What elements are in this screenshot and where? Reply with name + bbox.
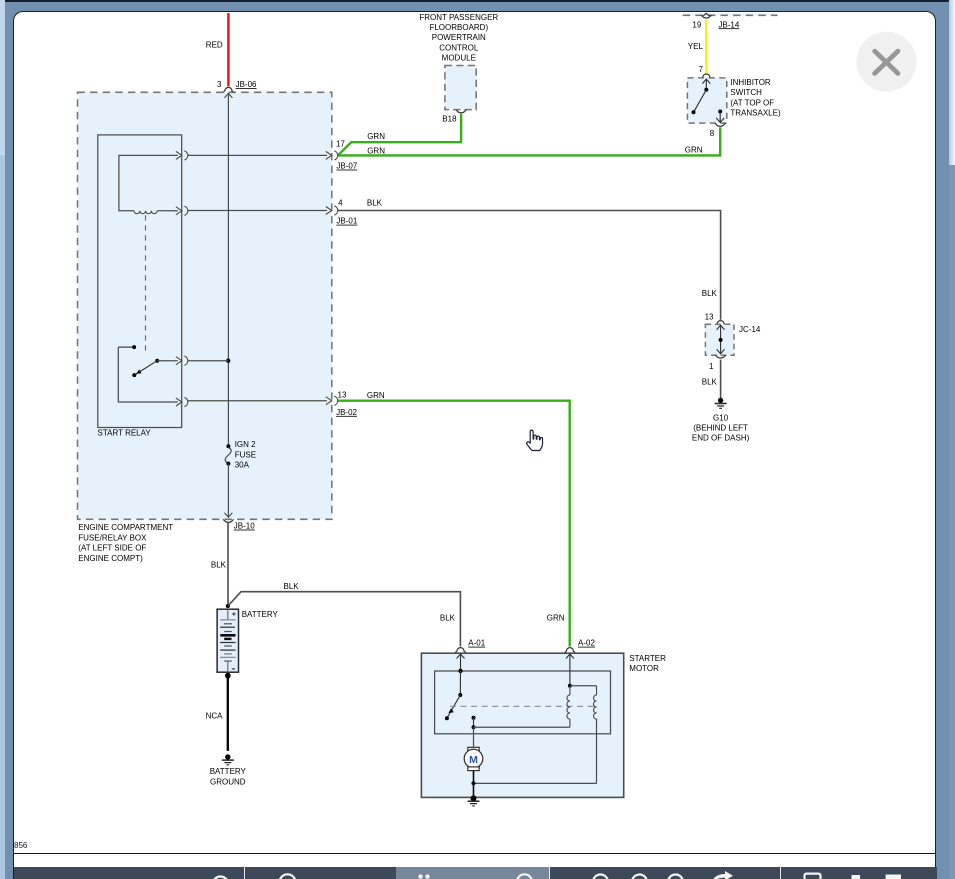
svg-text:BATTERY: BATTERY — [210, 767, 247, 776]
IGN 2 fuse — [225, 440, 256, 469]
relay mechanical link (dashed) — [145, 215, 147, 352]
ground battery ground — [210, 754, 247, 786]
connector pin7 arc — [698, 65, 711, 79]
right light strip (scroll) — [949, 0, 955, 165]
svg-text:ENGINE COMPARTMENT: ENGINE COMPARTMENT — [78, 523, 173, 532]
svg-text:JB-01: JB-01 — [336, 217, 357, 226]
starter solenoid switch arm — [445, 695, 460, 720]
wire fuse to JB-10 — [224, 464, 232, 518]
engine compartment fuse/relay box — [78, 92, 332, 519]
connector JB-07 — [326, 139, 358, 170]
svg-text:POWERTRAIN: POWERTRAIN — [432, 33, 486, 42]
svg-text:G10: G10 — [713, 413, 729, 422]
inhibitor switch pin 8 contact and lead — [716, 110, 724, 123]
PCM label — [419, 13, 498, 63]
battery — [217, 609, 278, 672]
svg-text:19: 19 — [692, 20, 701, 29]
svg-text:IGN 2: IGN 2 — [235, 440, 256, 449]
svg-text:INHIBITOR: INHIBITOR — [730, 78, 771, 87]
relay pin1 arrow — [176, 151, 188, 160]
wire relay pivot to pin 3 — [157, 360, 178, 362]
svg-text:8: 8 — [710, 129, 715, 138]
svg-text:(AT LEFT SIDE OF: (AT LEFT SIDE OF — [78, 544, 146, 553]
wire BLK battery to starter A-01 — [228, 582, 461, 647]
connector JB-02 — [326, 390, 358, 417]
top navy line — [0, 0, 955, 2]
left light strip — [0, 0, 5, 155]
JC-14 internals — [717, 325, 725, 353]
svg-text:JB-02: JB-02 — [336, 408, 357, 417]
svg-text:MOTOR: MOTOR — [629, 664, 659, 673]
page number 856 — [14, 841, 27, 850]
svg-text:3: 3 — [217, 80, 222, 89]
svg-text:ENGINE COMPT): ENGINE COMPT) — [78, 554, 143, 563]
junction node relay pin3 / main wire — [226, 359, 230, 363]
starter motor box — [421, 653, 666, 797]
svg-text:GRN: GRN — [685, 145, 703, 154]
wire RED feed to JB-06 — [206, 13, 229, 86]
svg-text:(AT TOP OF: (AT TOP OF — [730, 98, 774, 107]
wire relay pin2 to JB-01 — [188, 210, 327, 212]
footer rule — [14, 853, 936, 855]
svg-text:BLK: BLK — [284, 582, 300, 591]
wire A-01 to solenoid switch — [457, 654, 465, 671]
wire BLK JC-14 to G10 — [702, 360, 721, 398]
wire relay pin4 to JB-02 — [188, 400, 327, 402]
relay switch fixed contact — [118, 345, 136, 349]
connector JB-06 arc — [217, 80, 257, 92]
starter solenoid switch pivot — [458, 671, 462, 697]
wire hold-in coil to motor ground side — [474, 719, 597, 783]
relay switch pivot node — [155, 359, 159, 363]
connector A-01 arc — [455, 639, 485, 653]
wire relay pin3 to main wire junction — [188, 360, 229, 362]
inhibitor switch label — [730, 78, 781, 118]
relay pin3 arrow — [176, 356, 188, 365]
main vertical wire JB-06 to fuse — [224, 93, 232, 446]
wire pull-in coil to motor contact — [474, 726, 570, 728]
svg-text:BLK: BLK — [367, 199, 383, 208]
wire junction to hold-in coil — [570, 686, 597, 695]
wire GRN inhibitor pin8 to JB-07 — [338, 127, 720, 155]
svg-text:STARTER: STARTER — [629, 654, 666, 663]
ground starter case — [468, 795, 480, 806]
svg-text:B18: B18 — [442, 115, 457, 124]
svg-text:A-02: A-02 — [578, 639, 595, 648]
svg-text:FUSE/RELAY BOX: FUSE/RELAY BOX — [78, 533, 147, 542]
connector JB-10 arc — [223, 519, 255, 530]
svg-text:GRN: GRN — [367, 391, 385, 400]
svg-text:1: 1 — [709, 362, 714, 371]
svg-text:FLOORBOARD): FLOORBOARD) — [429, 23, 488, 32]
inhibitor switch pivot node — [704, 88, 708, 92]
svg-text:YEL: YEL — [688, 42, 704, 51]
svg-text:SWITCH: SWITCH — [730, 88, 762, 97]
node solenoid coil junction — [568, 684, 572, 688]
wire NCA battery to ground — [206, 676, 228, 751]
node solenoid switch feed — [458, 669, 462, 673]
inhibitor switch pin 7 lead — [702, 79, 710, 90]
svg-text:17: 17 — [336, 139, 345, 148]
svg-text:13: 13 — [705, 312, 714, 321]
svg-text:BATTERY: BATTERY — [242, 610, 279, 619]
solenoid hold-in coil — [594, 695, 597, 719]
svg-text:7: 7 — [698, 65, 703, 74]
svg-text:JC-14: JC-14 — [739, 325, 761, 334]
svg-text:CONTROL: CONTROL — [439, 43, 479, 52]
JB-14 connector box (cut off at page top) — [683, 13, 778, 15]
svg-text:13: 13 — [338, 390, 347, 399]
svg-text:GRN: GRN — [367, 147, 385, 156]
svg-text:30A: 30A — [235, 461, 250, 470]
solenoid pull-in coil — [567, 686, 570, 728]
start relay outline — [98, 135, 182, 437]
svg-text:BLK: BLK — [211, 560, 227, 569]
svg-text:GROUND: GROUND — [210, 777, 246, 786]
wire A-02 to solenoid coils — [566, 654, 574, 686]
bottom toolbar — [14, 867, 937, 879]
wire YEL pin19 to inhibitor pin7 — [688, 20, 707, 73]
svg-text:END OF DASH): END OF DASH) — [692, 434, 750, 443]
svg-text:GRN: GRN — [367, 132, 385, 141]
wire relay contact to pin 4 — [118, 347, 178, 402]
svg-text:4: 4 — [338, 199, 343, 208]
connector JB-14 arc — [692, 13, 739, 29]
relay switch arm — [132, 361, 157, 377]
wire GRN JB-02 to starter A-02 — [338, 391, 570, 647]
starter mechanical link (dashed) — [450, 705, 596, 707]
starter motor M — [464, 727, 483, 798]
svg-text:JB-14: JB-14 — [718, 20, 739, 29]
connector A-02 arc — [565, 639, 596, 653]
relay coil circuit — [119, 155, 178, 213]
svg-text:BLK: BLK — [440, 614, 456, 623]
wire relay pin1 to JB-07 — [188, 154, 327, 156]
ground G10 — [692, 398, 750, 443]
svg-text:FRONT PASSENGER: FRONT PASSENGER — [419, 13, 498, 22]
connector pin8 arc — [710, 123, 726, 138]
relay pin2 arrow — [176, 206, 188, 215]
JC-14 junction connector box — [705, 324, 760, 355]
svg-text:MODULE: MODULE — [442, 54, 476, 63]
wire BLK JB-10 to battery — [211, 522, 228, 606]
starter solenoid fixed contact — [472, 716, 476, 730]
svg-text:GRN: GRN — [547, 614, 565, 623]
svg-text:JB-07: JB-07 — [336, 162, 357, 171]
svg-text:FUSE: FUSE — [235, 450, 256, 459]
svg-text:NCA: NCA — [206, 711, 224, 720]
svg-text:START RELAY: START RELAY — [98, 428, 152, 437]
close button — [853, 28, 921, 96]
connector pin1 arc (JC-14 bottom) — [709, 355, 726, 371]
wire GRN JB-07 to PCM B18 — [338, 114, 461, 156]
relay pin4 arrow — [176, 397, 188, 406]
mouse cursor — [527, 430, 543, 450]
node battery negative — [225, 673, 231, 679]
svg-text:(BEHIND LEFT: (BEHIND LEFT — [693, 424, 748, 433]
fuse/relay box label — [78, 523, 173, 563]
node starter motor / field coil — [471, 781, 475, 785]
PCM connector box (dashed) — [445, 66, 476, 110]
node battery positive — [226, 604, 230, 608]
starter inner solenoid box — [435, 671, 611, 734]
inhibitor switch box — [687, 78, 726, 123]
svg-text:BLK: BLK — [702, 378, 718, 387]
svg-text:A-01: A-01 — [468, 639, 485, 648]
inhibitor switch arm — [692, 90, 707, 115]
connector JB-01 — [326, 199, 358, 226]
svg-text:M: M — [469, 754, 478, 766]
svg-text:JB-06: JB-06 — [236, 80, 257, 89]
svg-text:TRANSAXLE): TRANSAXLE) — [730, 109, 781, 118]
connector B18 arc — [442, 110, 466, 124]
svg-text:BLK: BLK — [702, 289, 718, 298]
svg-text:JB-10: JB-10 — [234, 522, 255, 531]
svg-text:RED: RED — [206, 40, 223, 49]
wire BLK JB-01 to JC-14 — [338, 199, 721, 320]
connector pin13 arc (JC-14 top) — [705, 312, 726, 325]
